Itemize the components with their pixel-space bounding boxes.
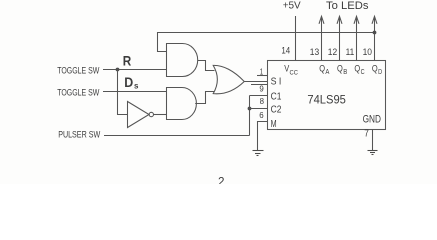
- label QA inside IC: [319, 64, 329, 77]
- pin 14 VCC lead to +5V: [295, 16, 297, 61]
- svg-text:12: 12: [328, 47, 337, 57]
- inverter U2 (NOT gate): [128, 102, 150, 128]
- wire U1A output to OR gate U3 top input (staircase): [198, 61, 215, 71]
- svg-text:13: 13: [310, 47, 319, 57]
- svg-text:CC: CC: [290, 69, 298, 76]
- wire inverter output to AND gate U1B lower input: [154, 114, 167, 116]
- arrowhead pin 12: [337, 16, 342, 24]
- svg-text:S I: S I: [271, 76, 282, 87]
- svg-text:C: C: [361, 69, 365, 76]
- svg-text:Q: Q: [372, 64, 378, 75]
- svg-text:C2: C2: [271, 105, 282, 116]
- IC U4 74LS95 body: [268, 61, 386, 130]
- svg-text:C1: C1: [271, 91, 282, 102]
- ground symbol below M: [253, 151, 264, 156]
- wire R to inverter input (vertical drop and horizontal): [118, 70, 128, 115]
- ground symbol below pin 7: [368, 151, 378, 155]
- svg-text:GND: GND: [363, 114, 381, 126]
- wire U1B output to OR gate U3 bottom input: [195, 92, 214, 104]
- svg-text:8: 8: [260, 97, 265, 106]
- svg-text:D: D: [378, 69, 382, 76]
- svg-text:Q: Q: [319, 64, 325, 75]
- svg-text:6: 6: [259, 111, 264, 120]
- svg-text:Q: Q: [354, 64, 360, 75]
- pin 1 stub underline: [257, 75, 268, 77]
- svg-text:B: B: [343, 69, 347, 76]
- pin 7 GND lead: [372, 130, 374, 151]
- svg-text:TOGGLE SW: TOGGLE SW: [57, 65, 100, 75]
- svg-text:D: D: [124, 74, 133, 90]
- svg-text:14: 14: [281, 46, 290, 56]
- svg-text:TOGGLE SW: TOGGLE SW: [57, 88, 100, 98]
- node junction dot on clock bracket at pin 6 line: [248, 107, 252, 111]
- node R junction dot: [116, 68, 120, 72]
- svg-text:M: M: [271, 119, 277, 130]
- wire Ds line from toggle switch to AND gate U1B input: [103, 91, 167, 93]
- AND gate U1B (bottom): [167, 88, 197, 120]
- wire R line from toggle switch to AND gate U1A input: [103, 69, 167, 71]
- svg-text:7: 7: [364, 128, 369, 139]
- pin 11 QC lead with arrow to LEDs: [356, 17, 358, 61]
- AND gate U1A (top): [167, 44, 198, 77]
- label VCC inside IC: [284, 63, 298, 76]
- OR gate U3: [213, 65, 244, 93]
- svg-text:74LS95: 74LS95: [307, 92, 346, 106]
- svg-text:Q: Q: [337, 64, 343, 75]
- pin 13 QA lead with arrow to LEDs: [321, 17, 323, 61]
- svg-text:PULSER SW: PULSER SW: [58, 130, 101, 140]
- svg-text:10: 10: [363, 47, 372, 57]
- svg-text:+5V: +5V: [283, 1, 301, 12]
- arrowhead pin 10: [372, 16, 377, 24]
- label QC inside IC: [354, 64, 364, 77]
- svg-text:A: A: [325, 69, 329, 76]
- wire feedback from QD (top horizontal run): [158, 33, 375, 52]
- svg-text:s: s: [134, 82, 139, 91]
- pin 9 / pin 8 shared rung: [250, 95, 268, 97]
- pin 6 M wire to ground: [258, 122, 268, 151]
- svg-text:2: 2: [218, 174, 225, 184]
- arrowhead pin 11: [354, 16, 359, 24]
- svg-text:11: 11: [346, 47, 355, 57]
- pin 9 stub upper line: [251, 84, 268, 86]
- wire OR output to pin 1 SI: [244, 81, 268, 83]
- label QB inside IC: [337, 64, 347, 77]
- wire clock bracket vertical (pulser to C1 C2): [249, 96, 251, 136]
- node feedback junction dot on QD lead: [373, 31, 377, 35]
- label Ds net name: [124, 74, 139, 90]
- svg-text:9: 9: [259, 84, 264, 93]
- pin 10 QD lead with arrow to LEDs: [374, 17, 376, 61]
- label QD inside IC: [372, 64, 382, 77]
- pin 6 stub upper line: [250, 108, 268, 110]
- svg-text:1: 1: [260, 68, 264, 77]
- arrowhead pin 13: [319, 16, 324, 24]
- svg-text:To LEDs: To LEDs: [326, 0, 369, 12]
- svg-text:R: R: [123, 53, 132, 69]
- pin 12 QB lead with arrow to LEDs: [339, 17, 341, 61]
- wire pulser line to clock bracket: [104, 135, 250, 137]
